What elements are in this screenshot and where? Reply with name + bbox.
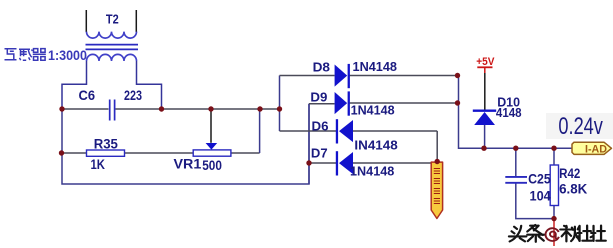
svg-text:D7: D7: [311, 147, 328, 161]
svg-text:T2: T2: [106, 11, 119, 26]
svg-text:R35: R35: [94, 137, 119, 152]
svg-text:0.24v: 0.24v: [558, 113, 603, 140]
svg-text:+5V: +5V: [476, 56, 495, 68]
svg-text:1:3000: 1:3000: [48, 48, 87, 63]
svg-text:D8: D8: [313, 60, 330, 74]
svg-text:R42: R42: [559, 166, 580, 181]
svg-text:223: 223: [124, 88, 142, 103]
svg-text:C25: C25: [528, 172, 551, 187]
svg-text:IN4148: IN4148: [354, 139, 397, 153]
svg-text:4148: 4148: [496, 106, 522, 120]
svg-text:1N4148: 1N4148: [353, 60, 398, 74]
svg-text:1N4148: 1N4148: [351, 103, 395, 117]
svg-text:500: 500: [202, 158, 222, 173]
svg-text:D9: D9: [310, 91, 327, 105]
svg-text:1K: 1K: [91, 157, 106, 172]
svg-text:6.8K: 6.8K: [559, 182, 587, 197]
svg-text:VR1: VR1: [174, 156, 202, 171]
svg-text:1N4148: 1N4148: [350, 164, 394, 178]
svg-text:I-AD: I-AD: [585, 143, 607, 155]
svg-text:D6: D6: [312, 120, 329, 134]
svg-text:104: 104: [530, 189, 552, 204]
svg-text:C6: C6: [79, 88, 96, 103]
